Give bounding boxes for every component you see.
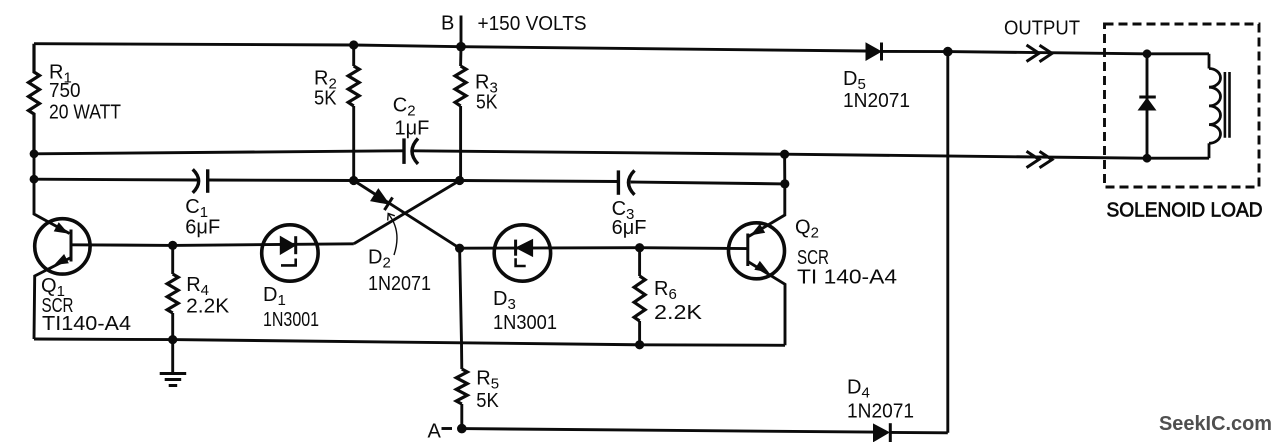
svg-text:1N2071: 1N2071 <box>847 401 914 423</box>
svg-text:R5: R5 <box>476 368 499 393</box>
wire R3 branch <box>459 47 462 66</box>
diode D2 <box>371 189 393 211</box>
output chevrons bottom <box>1027 151 1053 168</box>
diode D4 <box>874 423 891 442</box>
wire Q1 base row <box>71 244 354 246</box>
resistor R1 <box>29 44 40 154</box>
wire node A dash <box>442 427 453 430</box>
diode D1 <box>262 225 318 281</box>
wire second rail right of C2 <box>414 151 1210 158</box>
svg-text:750: 750 <box>49 80 81 102</box>
solenoid diode branch <box>1139 54 1156 158</box>
svg-text:1N2071: 1N2071 <box>843 90 910 112</box>
svg-text:D3: D3 <box>493 288 516 313</box>
svg-text:2.2K: 2.2K <box>654 302 703 324</box>
svg-text:1N3001: 1N3001 <box>263 309 319 331</box>
diode D3 <box>494 225 550 281</box>
svg-text:TI140-A4: TI140-A4 <box>42 313 131 335</box>
resistor R3 <box>455 66 466 106</box>
svg-text:6μF: 6μF <box>185 217 220 239</box>
wire Q2 collector <box>749 154 785 236</box>
svg-text:OUTPUT: OUTPUT <box>1004 18 1080 40</box>
svg-text:5K: 5K <box>476 92 498 114</box>
wire left vertical <box>34 154 70 234</box>
resistor R4 <box>167 274 178 313</box>
svg-text:D2: D2 <box>368 247 391 272</box>
svg-text:5K: 5K <box>314 88 337 110</box>
svg-text:Q2: Q2 <box>795 217 819 242</box>
transistor Q1 <box>35 219 90 274</box>
svg-text:1μF: 1μF <box>395 118 430 140</box>
svg-text:SeekIC.com: SeekIC.com <box>1159 413 1272 435</box>
svg-text:D4: D4 <box>847 377 870 402</box>
capacitor C3 <box>618 170 634 194</box>
transistor Q2 <box>729 223 785 279</box>
svg-text:SOLENOID LOAD: SOLENOID LOAD <box>1107 200 1263 222</box>
svg-text:B: B <box>441 13 454 35</box>
wire top supply rail <box>34 44 866 51</box>
wire R2 lower lead <box>352 106 355 181</box>
wire mid vertical to R5 <box>460 248 462 369</box>
wire bottom rail <box>34 339 785 345</box>
svg-text:2.2K: 2.2K <box>186 296 230 318</box>
svg-text:A: A <box>428 421 442 442</box>
wire Q2 emitter <box>748 262 785 346</box>
capacitor C1 <box>193 169 208 193</box>
wire crossing diagonal up <box>354 181 460 244</box>
svg-text:6μF: 6μF <box>612 217 647 239</box>
output chevrons top <box>1027 45 1053 62</box>
wire R3 lower lead <box>459 106 462 181</box>
solenoid core lines <box>1225 72 1230 138</box>
wire D3 row <box>460 246 748 250</box>
resistor R6 <box>634 276 645 321</box>
wire R4 lower lead <box>171 313 174 340</box>
solenoid load dashed box <box>1105 24 1260 187</box>
svg-text:R6: R6 <box>654 278 677 303</box>
wire R5 lower lead to node A <box>460 404 463 429</box>
solenoid coil <box>1209 54 1221 158</box>
wire R2 branch <box>352 45 355 66</box>
wire R6 lower lead <box>638 321 641 345</box>
ground <box>160 340 187 386</box>
svg-text:+150 VOLTS: +150 VOLTS <box>478 13 587 35</box>
wire third rail C1 to C3 <box>208 180 619 182</box>
wire crossing diagonal down with D2 <box>354 181 460 249</box>
wire right vertical <box>946 52 949 433</box>
wire Q1 emitter to bottom rail <box>34 258 71 340</box>
capacitor C2 <box>404 138 418 164</box>
wire R4 branch <box>171 245 174 274</box>
diode D5 <box>866 43 882 61</box>
wire third rail right of C3 <box>631 182 785 184</box>
svg-text:C2: C2 <box>393 95 416 120</box>
svg-text:5K: 5K <box>476 390 499 412</box>
svg-text:1N2071: 1N2071 <box>368 273 431 295</box>
wire second rail left of C2 <box>34 151 404 154</box>
svg-text:D1: D1 <box>263 284 286 309</box>
svg-text:1N3001: 1N3001 <box>493 312 557 334</box>
wire top rail right of D5 <box>882 51 1210 53</box>
D2 pointer arrow <box>388 214 397 256</box>
wire R6 branch <box>638 248 641 276</box>
resistor R2 <box>348 66 359 106</box>
wire third rail left of C1 <box>34 178 198 182</box>
wire node A rail right of D4 <box>891 431 948 434</box>
node B stub <box>460 16 463 47</box>
svg-text:20 WATT: 20 WATT <box>49 101 121 123</box>
resistor R5 <box>456 369 467 404</box>
svg-text:TI 140-A4: TI 140-A4 <box>797 267 897 289</box>
wire node A rail <box>462 429 873 433</box>
